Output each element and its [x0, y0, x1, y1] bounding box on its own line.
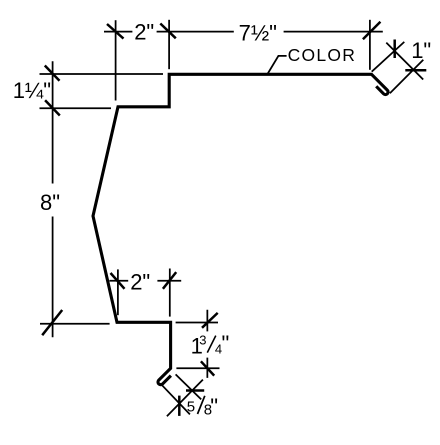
top dimension line (2" and 7 1/2"): [104, 31, 383, 33]
extension line x=169.8: [169, 269, 171, 317]
svg-text:": ": [222, 331, 230, 356]
wire profile body: [93, 74, 388, 384]
extension line x=169.1: [168, 20, 170, 69]
tick 5/8 upper -: [186, 389, 204, 392]
extension line y=74: [40, 73, 164, 75]
svg-text:2": 2": [130, 270, 150, 295]
extension line x=117.9: [117, 269, 119, 315]
tick marks: [42, 22, 426, 416]
tick 5/8 lower |: [178, 396, 181, 416]
extension line y=323.8: [40, 323, 110, 325]
profile outline (sheet metal trim cross-section): [93, 74, 388, 384]
5/8" dimension line: [167, 380, 203, 417]
svg-text:5: 5: [187, 399, 195, 416]
bottom 2" dimension line: [109, 280, 181, 282]
5/8" extension line lower: [160, 383, 190, 414]
svg-text:3: 3: [199, 333, 206, 348]
tick left-bottom /: [42, 310, 62, 335]
1" extension line lower: [390, 60, 423, 94]
extension line y=368.3: [176, 367, 219, 369]
svg-text:8": 8": [40, 190, 60, 215]
1" dimension line: [386, 43, 423, 80]
left dimension line (1 1/4" and 8"): [52, 61, 54, 337]
tick bottom-2 right /: [163, 272, 176, 289]
tick top-left \: [107, 24, 124, 39]
tick top-right /: [363, 22, 381, 40]
tick 1-3/4 top /: [202, 313, 218, 328]
1 3/4" dimension line: [206, 310, 208, 378]
svg-text:1¼": 1¼": [13, 78, 51, 103]
svg-text:COLOR: COLOR: [288, 45, 356, 65]
5/8" extension line upper: [176, 374, 202, 399]
svg-text:2": 2": [134, 20, 154, 45]
tick 1-3/4 bottom \: [201, 361, 214, 375]
tick bottom-2 left \: [111, 273, 125, 289]
svg-text:1": 1": [411, 38, 431, 63]
1" extension line upper: [372, 42, 405, 72]
dimension graphics: [40, 20, 424, 416]
tick 1inch upper |: [393, 40, 396, 59]
tick top-mid \: [160, 24, 176, 39]
5/8 fraction slash: [198, 396, 205, 414]
tick left-upper \: [45, 66, 60, 81]
svg-text:": ": [210, 394, 218, 419]
tick 1inch lower -: [405, 69, 426, 72]
extension line y=108.2: [40, 107, 112, 109]
extension line x=369.9: [369, 20, 371, 70]
label 1 3/4 inch: fraction slash: [207, 336, 216, 353]
COLOR leader line: [268, 56, 287, 74]
extension line x=115.6: [115, 20, 117, 100]
svg-text:7½": 7½": [239, 21, 277, 46]
extension line y=322.5: [176, 322, 218, 324]
tick left-mid \: [45, 100, 60, 115]
